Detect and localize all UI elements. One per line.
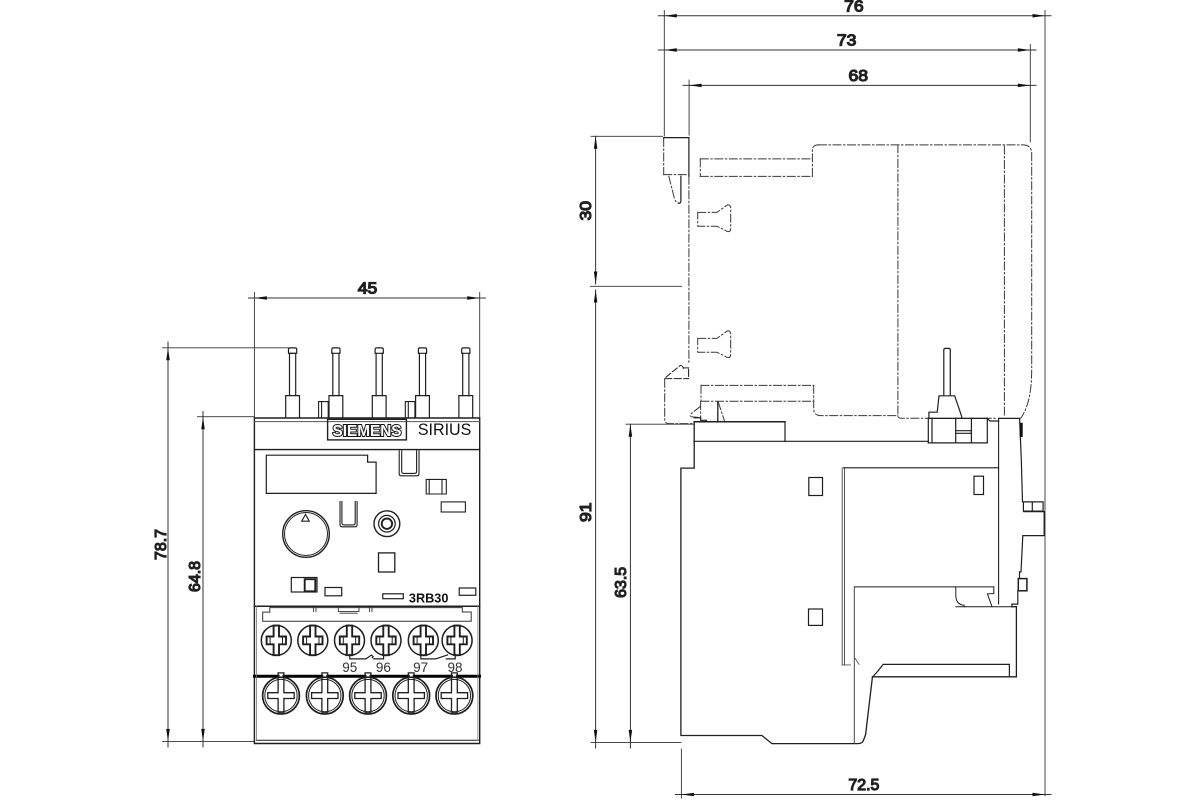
- upper screw 2: [298, 625, 328, 655]
- clip top edge: [664, 137, 689, 139]
- lower screw 4: [393, 673, 430, 714]
- phantom clip left edge: [663, 139, 665, 175]
- double rect bottom-left outer: [291, 578, 317, 593]
- bottom inner verticals: [256, 606, 478, 740]
- dimension 63.5 line: [626, 424, 694, 748]
- pocket left hook: [956, 587, 965, 607]
- contact symbol 95-96: [350, 654, 384, 659]
- lower screw 2: [306, 673, 343, 714]
- svg-text:73: 73: [837, 33, 857, 50]
- dimension 68 arrows: [689, 84, 1030, 88]
- dimension 76 arrows: [664, 14, 1045, 17]
- terminal section line: [254, 605, 479, 607]
- test button outer circle: [374, 511, 400, 537]
- inner horizontal shelf: [844, 467, 999, 469]
- terminal block bottom: [928, 442, 987, 444]
- dimension 64.8 arrows: [201, 417, 205, 742]
- bottom inner line: [256, 739, 479, 741]
- upper screw 4: [371, 625, 401, 655]
- dimension 64.8 line: [198, 412, 255, 748]
- mid surface line: [694, 440, 928, 442]
- small square knob: [1018, 579, 1027, 591]
- thick separator line: [255, 675, 480, 678]
- dimension 78.7 line: [163, 342, 289, 747]
- dimension 76 line: [658, 11, 1051, 796]
- pin 1: [286, 348, 300, 418]
- front face upper: [1020, 418, 1023, 501]
- front face marking filled: [1020, 423, 1023, 437]
- front face below knob: [1020, 536, 1023, 579]
- side pin base mound: [929, 396, 962, 419]
- phantom bottom jog: [898, 416, 997, 419]
- dimension 91 arrows: [594, 290, 598, 742]
- svg-text:SIRIUS: SIRIUS: [418, 420, 472, 439]
- lower screw 3: [350, 673, 387, 714]
- knob upper rect: [1023, 502, 1043, 511]
- dimension 30 line: [591, 136, 682, 286]
- dial triangle marker: [302, 514, 310, 521]
- phantom contactor inner vertical: [1003, 146, 1005, 416]
- side square hole 3: [809, 609, 823, 625]
- terminal block verticals: [928, 418, 987, 443]
- release lever: [665, 365, 689, 378]
- phantom top bar bottom line: [700, 175, 812, 177]
- phantom slide bottom: [665, 379, 695, 423]
- dimension 45 line: [249, 293, 486, 418]
- adjustment dial inner circle: [285, 513, 328, 556]
- contact symbol 97-98: [421, 654, 455, 659]
- knob lower rect: [1024, 512, 1044, 536]
- svg-text:3RB30: 3RB30: [409, 590, 449, 605]
- dimension 78.7 arrows: [166, 348, 170, 742]
- bottom bar top edge: [872, 664, 1009, 677]
- front face lower: [1012, 591, 1018, 607]
- pin 5: [459, 348, 473, 418]
- small rect right of test button: [441, 502, 465, 512]
- pocket right notch: [987, 587, 993, 607]
- side square hole 2: [974, 476, 984, 494]
- adjustment dial outer circle: [283, 511, 330, 558]
- svg-text:64.8: 64.8: [187, 561, 204, 592]
- phantom bottom bar top line: [701, 384, 814, 386]
- small rect mid-bottom: [383, 594, 404, 599]
- upper screw 5: [408, 625, 438, 655]
- front body outline: [254, 418, 479, 744]
- square window: [379, 553, 395, 572]
- front block left inner edge: [998, 418, 1000, 604]
- terminal block slot: [956, 431, 972, 434]
- phantom lower bell tab: [698, 331, 731, 358]
- U bracket beside dial: [340, 502, 357, 527]
- SIEMENS logo box: [328, 419, 407, 440]
- svg-text:96: 96: [376, 660, 391, 675]
- platform post: [717, 402, 719, 422]
- front block top: [999, 417, 1020, 419]
- dimension 73 line: [658, 45, 1036, 143]
- phantom bottom bar lower line: [701, 400, 814, 402]
- phantom contactor top edge: [819, 145, 1032, 418]
- dimension 63.5 arrows: [629, 424, 633, 742]
- dimension 73 arrows: [664, 48, 1030, 52]
- pocket between blocks: [987, 418, 998, 421]
- upper screw 1: [261, 625, 291, 655]
- pin 2: [329, 348, 343, 418]
- phantom bottom bar left vertical: [700, 385, 702, 401]
- dimension 68 line: [683, 80, 1036, 135]
- inner shelf line: [855, 586, 994, 588]
- svg-text:45: 45: [358, 281, 378, 298]
- dimension 30 arrows: [594, 136, 598, 284]
- dimension 72.5 line: [676, 749, 1052, 798]
- platform small step rect: [701, 418, 707, 422]
- svg-text:91: 91: [578, 502, 595, 522]
- phantom contactor outline group: [664, 139, 1032, 424]
- phantom bottom step: [814, 385, 898, 415]
- relay left and bottom outline: [681, 422, 873, 744]
- release lever bottom: [665, 369, 689, 378]
- phantom clip bottom: [664, 174, 689, 176]
- terminal lip contour: [263, 608, 472, 622]
- phantom latch slant: [718, 402, 724, 421]
- phantom top bar left end: [699, 159, 701, 177]
- bottom bar bottom edge: [872, 676, 1016, 678]
- svg-text:97: 97: [413, 660, 428, 675]
- upper hook solid right edge: [679, 176, 681, 203]
- double rect bottom-left inner bold: [305, 579, 316, 591]
- phantom top bar right step: [812, 145, 818, 177]
- upper screw 6: [442, 625, 472, 655]
- inner horizontal at bar left: [842, 658, 859, 665]
- label strip second line: [254, 421, 479, 423]
- svg-text:78.7: 78.7: [153, 529, 170, 560]
- phantom contactor rear vertical: [897, 145, 899, 416]
- lower screw 1: [263, 673, 300, 714]
- phantom top bar top line: [700, 158, 812, 160]
- svg-text:68: 68: [849, 68, 869, 85]
- phantom latch wedge: [690, 401, 700, 417]
- svg-text:76: 76: [844, 0, 864, 16]
- clip right edge: [688, 138, 690, 177]
- dimension 72.5 arrows: [681, 793, 1045, 797]
- svg-text:72.5: 72.5: [848, 777, 879, 794]
- reset button U-slot: [399, 451, 419, 476]
- phantom upper bell tab: [698, 205, 731, 232]
- svg-text:30: 30: [578, 201, 595, 221]
- svg-text:63.5: 63.5: [613, 567, 630, 598]
- test button inner circle: [382, 519, 392, 529]
- platform ledge: [694, 417, 701, 419]
- pin 4: [416, 348, 430, 418]
- small rect below-left: [325, 588, 342, 596]
- side square hole 1: [809, 478, 823, 496]
- svg-text:SIEMENS: SIEMENS: [333, 423, 402, 440]
- side pin shaft: [944, 348, 951, 394]
- platform top surface: [694, 421, 785, 423]
- top tab left: [319, 402, 329, 418]
- svg-text:95: 95: [342, 660, 357, 675]
- small rect bottom-right: [459, 588, 476, 595]
- upper screw 3: [335, 625, 365, 655]
- front block right edge: [1012, 607, 1017, 677]
- display window: [266, 455, 376, 493]
- inner long vertical: [853, 587, 855, 744]
- phantom mounting face: [688, 176, 690, 364]
- pocket bottom: [956, 606, 1012, 608]
- platform right edge: [784, 422, 786, 442]
- dimension 91 line: [591, 290, 681, 748]
- lip tray: [338, 608, 359, 614]
- lower screw 5: [436, 673, 473, 714]
- lip ticks: [314, 608, 372, 612]
- pin 3: [372, 348, 386, 418]
- phantom upper hook left edge: [669, 176, 680, 203]
- terminal block top: [928, 417, 987, 419]
- inner vertical pair: [842, 468, 844, 665]
- label strip bottom line: [254, 449, 479, 451]
- test button middle circle: [379, 515, 396, 532]
- dimension 45 arrows: [254, 296, 479, 300]
- top tab right: [405, 402, 415, 418]
- clip rect with inner lines: [426, 479, 446, 494]
- SIEMENS logo text: [333, 423, 402, 440]
